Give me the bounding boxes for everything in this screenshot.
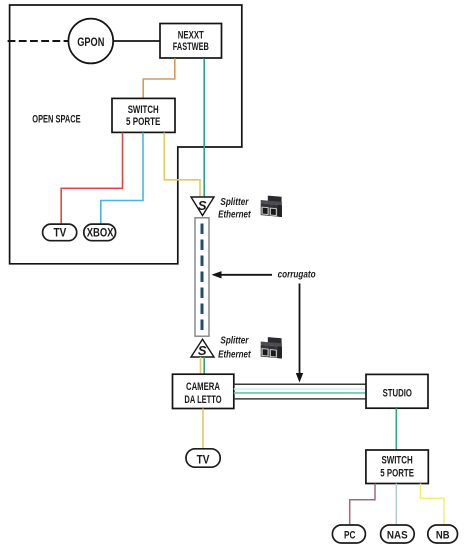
node TV (open space): [43, 224, 77, 241]
icon RJ45 coupler (top): [261, 196, 282, 217]
arrow corrugato pointing down: [299, 284, 301, 374]
svg-text:CAMERA: CAMERA: [186, 381, 220, 393]
right side: [278, 205, 282, 217]
wire yellow switch to splitter: [164, 133, 200, 197]
port 1 frame: [262, 207, 269, 215]
svg-text:corrugato: corrugato: [278, 269, 316, 280]
svg-text:DA LETTO: DA LETTO: [184, 394, 221, 406]
wire teal splitter to camera: [203, 357, 205, 374]
icon RJ45 coupler (bottom): [261, 337, 282, 358]
wire yellow switch to NB: [421, 484, 444, 526]
wire green studio to switch: [395, 408, 397, 450]
switch SWITCH 5 PORTE (open space): [112, 98, 175, 132]
cable run camera to studio: conduit top: [234, 383, 366, 385]
svg-text:NEXXT: NEXXT: [178, 30, 204, 42]
arrow corrugato pointing left: [221, 274, 273, 276]
node TV (camera da letto): [186, 449, 220, 467]
tab: [268, 196, 282, 203]
wire blue switch to XBOX: [101, 133, 143, 225]
splitter S (top): [191, 197, 214, 216]
node PC: [332, 525, 365, 543]
node NB: [428, 525, 458, 543]
svg-text:5 PORTE: 5 PORTE: [380, 468, 414, 480]
svg-text:NB: NB: [436, 529, 450, 541]
room CAMERA DA LETTO: [173, 374, 234, 408]
router NEXXT FASTWEB: [160, 24, 222, 59]
svg-text:S: S: [198, 198, 207, 213]
cable green: [234, 392, 366, 394]
room STUDIO: [366, 374, 428, 408]
svg-text:OPEN SPACE: OPEN SPACE: [32, 114, 80, 126]
svg-text:TV: TV: [54, 226, 67, 240]
wire maroon switch to PC: [350, 484, 375, 526]
body top face: [261, 200, 282, 205]
cable dashed (inside conduit): [201, 224, 204, 333]
wire yellow splitter to camera: [200, 357, 202, 374]
node GPON: [68, 19, 113, 64]
port 2 frame: [270, 208, 277, 216]
svg-text:Ethernet: Ethernet: [218, 349, 251, 360]
wire GPON to router: [113, 40, 160, 42]
wire red switch to TV: [61, 133, 122, 225]
svg-text:Ethernet: Ethernet: [218, 210, 251, 221]
body front: [261, 203, 282, 217]
svg-text:PC: PC: [344, 529, 355, 541]
svg-text:STUDIO: STUDIO: [383, 388, 413, 400]
cable light blue: [234, 388, 366, 390]
wire orange router to switch: [143, 58, 175, 98]
svg-text:FASTWEB: FASTWEB: [173, 41, 209, 53]
switch SWITCH 5 PORTE (studio): [366, 450, 428, 484]
cable run conduit bottom: [234, 398, 366, 400]
wire yellow camera to TV: [202, 409, 204, 449]
node NAS: [381, 525, 415, 543]
svg-text:S: S: [198, 343, 207, 358]
conduit corrugato (vertical): [195, 218, 209, 336]
wire green router to splitter: [203, 58, 205, 197]
svg-text:SWITCH: SWITCH: [128, 104, 159, 116]
svg-text:SWITCH: SWITCH: [381, 455, 412, 467]
svg-text:Splitter: Splitter: [220, 197, 249, 208]
wire incoming fiber (dashed): [8, 40, 69, 42]
svg-text:NAS: NAS: [387, 529, 408, 541]
svg-text:XBOX: XBOX: [87, 226, 114, 240]
node XBOX: [84, 224, 116, 241]
svg-text:TV: TV: [197, 452, 210, 466]
wire gray-blue switch to NAS: [395, 484, 397, 526]
room OPEN SPACE outline: [10, 5, 242, 264]
svg-text:5 PORTE: 5 PORTE: [126, 116, 160, 128]
splitter S (bottom): [191, 339, 214, 357]
svg-text:GPON: GPON: [77, 35, 104, 49]
svg-text:Splitter: Splitter: [220, 336, 249, 347]
